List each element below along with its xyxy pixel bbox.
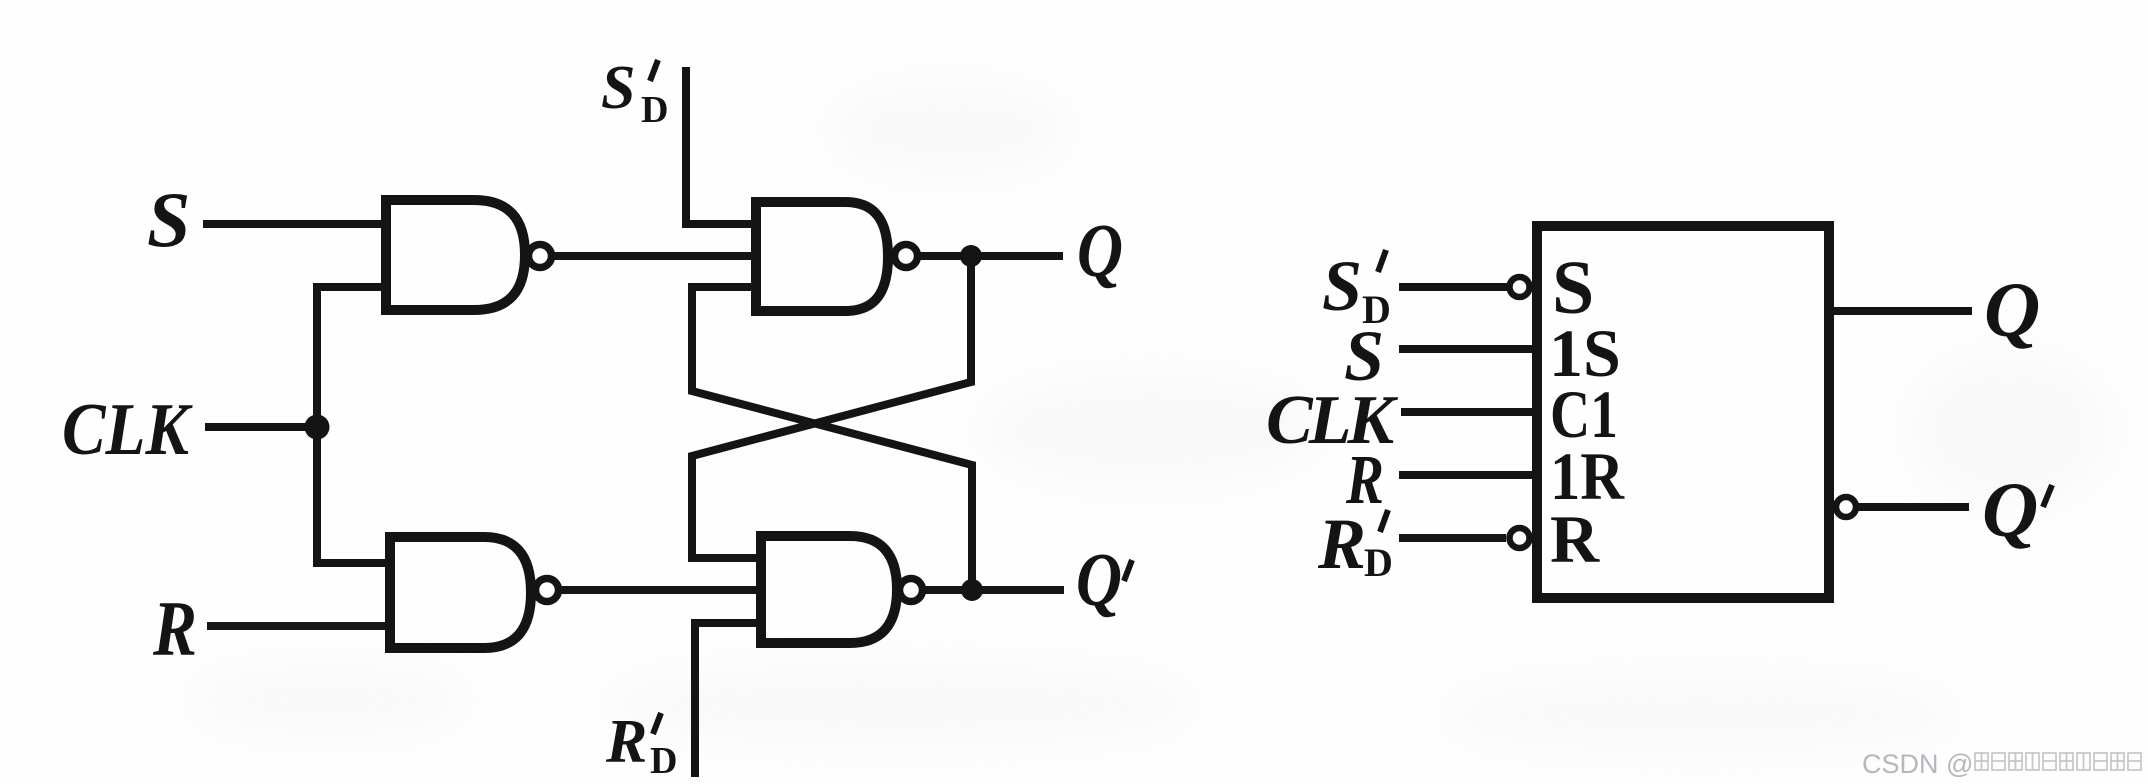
svg-text:D: D xyxy=(641,89,668,131)
svg-text:D: D xyxy=(650,740,677,782)
svg-text:S: S xyxy=(1322,246,1362,326)
svg-text:Q: Q xyxy=(1077,209,1123,293)
svg-text:Q: Q xyxy=(1076,538,1122,622)
svg-text:Q: Q xyxy=(1982,466,2038,553)
svg-text:R: R xyxy=(152,585,197,672)
svg-text:CSDN @: CSDN @ xyxy=(1862,749,1973,779)
svg-text:S: S xyxy=(601,54,635,122)
svg-text:R: R xyxy=(1317,504,1366,584)
svg-text:CLK: CLK xyxy=(62,389,193,471)
svg-text:Q: Q xyxy=(1984,266,2040,353)
svg-text:R: R xyxy=(1550,501,1600,577)
svg-text:D: D xyxy=(1364,540,1393,585)
svg-text:R: R xyxy=(605,708,647,776)
svg-text:S: S xyxy=(147,176,190,263)
